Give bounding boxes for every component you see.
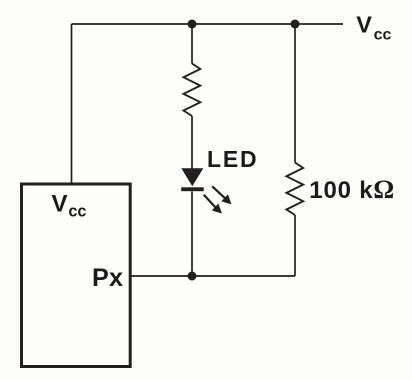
wire: middle branch upper segment [191, 24, 193, 64]
svg-text:Vcc: Vcc [52, 191, 87, 221]
LED light arrow 2 [204, 195, 222, 214]
LED light arrow 1 [212, 186, 231, 204]
resistor R1 (LED series resistor) [184, 64, 201, 117]
wire: Px pin horizontal run [131, 275, 295, 277]
wire: right branch upper segment [294, 24, 296, 163]
wire: 100k to bottom node [294, 215, 296, 276]
svg-text:LED: LED [207, 146, 258, 172]
LED D1 cathode bar [181, 187, 204, 191]
wire: LED cathode to Px node [191, 192, 193, 277]
svg-text:100 kΩ: 100 kΩ [309, 175, 395, 204]
svg-text:Px: Px [92, 264, 123, 292]
wire: resistor to LED anode [191, 116, 193, 169]
wire: top rail [72, 23, 344, 25]
IC box (microcontroller) [22, 184, 131, 367]
junction dot at LED branch / top rail [188, 20, 197, 29]
LED D1 triangle (anode) [181, 168, 203, 186]
junction dot at Px node [188, 272, 197, 281]
svg-text:Vcc: Vcc [356, 12, 391, 44]
junction dot at 100k branch / top rail [291, 20, 300, 29]
resistor R2 100k pull-up [286, 163, 303, 216]
wire: left drop to IC box [71, 24, 73, 184]
